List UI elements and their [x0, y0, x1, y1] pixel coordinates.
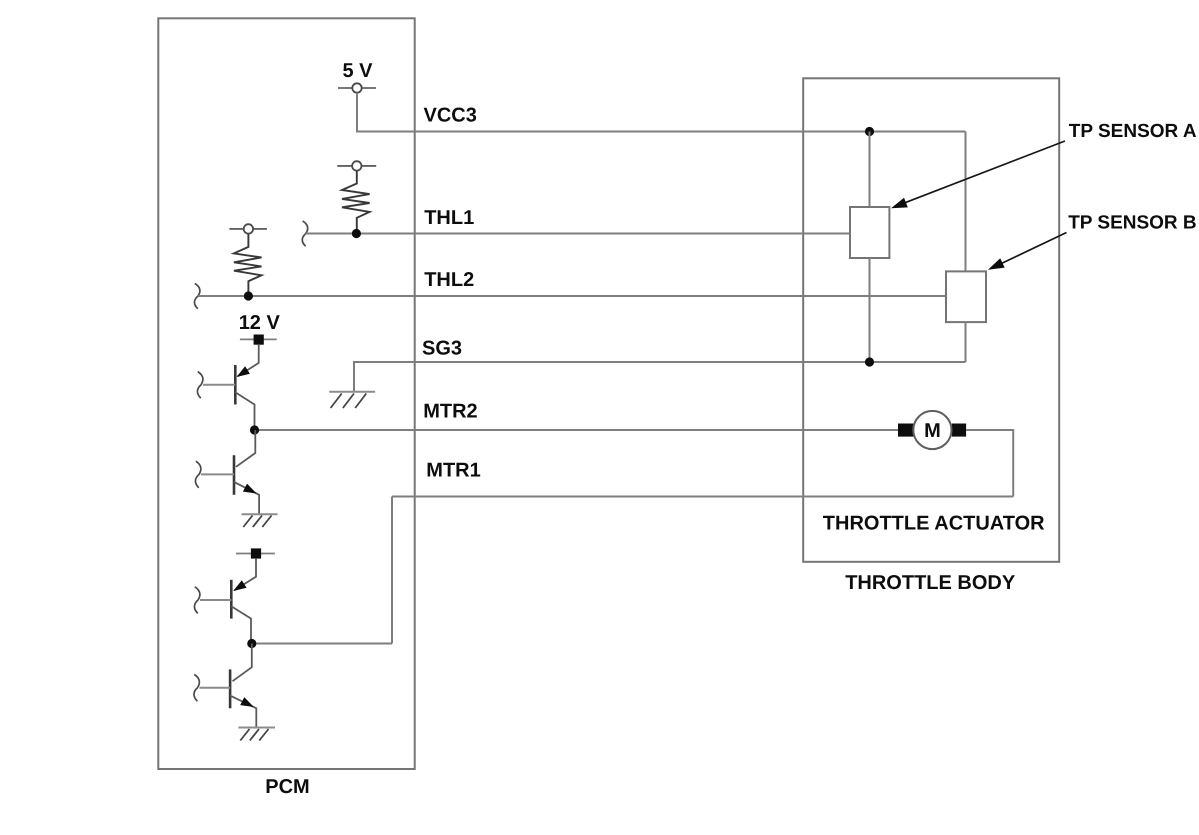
svg-text:MTR1: MTR1: [426, 460, 480, 482]
transistor Q4 emitter arrowhead: [240, 697, 254, 707]
transistor Q3 collector wire: [231, 606, 251, 643]
transistor Q2 emitter wire: [234, 482, 259, 514]
junction dot MTR2: [250, 425, 259, 434]
ground Q4: [238, 728, 275, 741]
wire THL1: [306, 233, 850, 235]
svg-text:TP SENSOR B: TP SENSOR B: [1068, 212, 1196, 233]
TP sensor A box: [850, 207, 889, 258]
12V supply square Q3: [236, 548, 275, 558]
transistor Q1 emitter arrowhead: [237, 366, 250, 377]
svg-text:SG3: SG3: [422, 338, 462, 360]
motor M: [898, 411, 966, 449]
node SG3 junction dot: [865, 357, 874, 366]
pull-up terminal THL2: [229, 224, 267, 233]
connector pigtail Q1 base: [197, 372, 202, 399]
TP SENSOR B pointer arrow: [988, 233, 1067, 270]
wire MTR2: [255, 429, 900, 431]
svg-text:THROTTLE BODY: THROTTLE BODY: [845, 572, 1016, 594]
connector pigtail THL2: [194, 284, 199, 309]
transistor Q3 base wire: [200, 599, 231, 601]
wire MTR1 horizontal from Q3/Q4 node: [252, 643, 392, 645]
transistor Q1 bar: [234, 365, 237, 405]
transistor Q4 collector wire: [233, 644, 252, 682]
wire TP sensor B top: [965, 132, 967, 272]
svg-text:THL1: THL1: [424, 207, 474, 229]
wire TP sensor A bottom: [869, 258, 871, 362]
transistor Q4 bar: [229, 669, 232, 708]
THROTTLE BODY box: [803, 78, 1059, 562]
transistor Q3 emitter arrowhead: [233, 580, 246, 591]
transistor Q2 collector wire: [236, 430, 255, 467]
TP sensor B box: [946, 271, 986, 322]
svg-text:PCM: PCM: [265, 776, 309, 798]
resistor THL2 pull-up: [234, 234, 262, 296]
transistor Q3 bar: [230, 580, 233, 619]
wire THL2: [198, 295, 946, 297]
transistor Q1 base wire: [203, 384, 235, 386]
ground Q2: [242, 514, 278, 527]
TP SENSOR A pointer arrow: [891, 141, 1065, 208]
svg-text:THL2: THL2: [424, 269, 474, 291]
resistor THL1 pull-up: [342, 171, 370, 234]
node VCC3 junction dot: [865, 127, 874, 136]
5V supply terminal: [338, 83, 376, 92]
svg-text:5 V: 5 V: [343, 60, 374, 82]
connector pigtail Q4 base: [194, 675, 199, 702]
wire motor right: [966, 430, 1013, 497]
transistor Q4 base wire: [200, 687, 231, 689]
transistor Q3 emitter wire: [234, 559, 256, 591]
transistor Q1 collector wire: [235, 392, 254, 430]
transistor Q4 emitter wire: [230, 696, 256, 728]
wire TP sensor A top: [869, 132, 871, 208]
svg-text:THROTTLE ACTUATOR: THROTTLE ACTUATOR: [823, 513, 1045, 535]
wire 5V to VCC3: [357, 93, 415, 132]
ground SG3: [329, 392, 375, 408]
connector pigtail Q3 base: [194, 587, 199, 614]
wire VCC3: [414, 131, 966, 133]
svg-text:M: M: [924, 420, 941, 442]
wire SG3: [354, 362, 966, 392]
pull-up terminal THL1: [337, 161, 376, 170]
transistor Q2 base wire: [201, 473, 234, 475]
junction dot THL1: [352, 229, 361, 238]
transistor Q2 emitter arrowhead: [243, 484, 257, 494]
wire MTR1 vertical riser: [391, 497, 393, 644]
svg-text:12 V: 12 V: [239, 312, 281, 334]
PCM box: [158, 18, 414, 769]
wire TP sensor B bottom: [965, 322, 967, 362]
12V supply square Q1: [240, 335, 277, 345]
svg-text:MTR2: MTR2: [423, 401, 477, 423]
junction dot MTR1: [247, 639, 256, 648]
junction dot THL2: [244, 291, 253, 300]
connector pigtail THL1: [302, 221, 307, 246]
transistor Q1 emitter wire: [238, 345, 259, 377]
wire MTR1: [392, 496, 1013, 498]
transistor Q2 bar: [233, 455, 236, 495]
connector pigtail Q2 base: [195, 461, 200, 488]
svg-text:TP SENSOR A: TP SENSOR A: [1069, 121, 1197, 142]
svg-text:VCC3: VCC3: [424, 105, 477, 127]
